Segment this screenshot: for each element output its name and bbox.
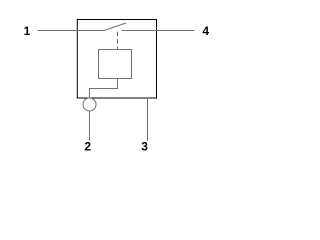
pin 2 wire xyxy=(89,111,91,141)
coil to terminal wire xyxy=(90,79,118,99)
svg-text:1: 1 xyxy=(24,24,31,38)
pin 4 wire xyxy=(122,30,195,32)
relay body outline K1: top edge xyxy=(77,19,157,21)
terminal circle (pin 2) xyxy=(83,98,96,111)
pin 1 wire xyxy=(38,30,105,32)
relay body outline K1: right edge xyxy=(156,19,158,99)
coil box xyxy=(99,50,132,79)
svg-text:4: 4 xyxy=(202,24,209,38)
relay body outline K1: bottom edge xyxy=(77,97,157,99)
svg-text:2: 2 xyxy=(84,140,91,154)
mechanical link (dashed) xyxy=(117,32,119,50)
relay body outline K1: left edge xyxy=(76,19,78,99)
switch blade (NO contact) xyxy=(104,23,126,31)
svg-text:3: 3 xyxy=(141,140,148,154)
pin 3 wire xyxy=(147,98,149,141)
